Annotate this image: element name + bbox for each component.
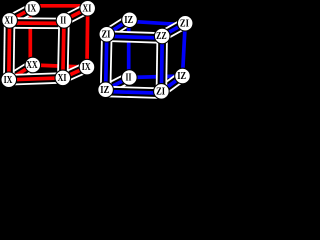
wire back-right XI-IX (red, no casing) [83,8,91,67]
node ZZ (blue front top-right) [154,28,170,44]
svg-text:IX: IX [82,61,91,73]
wire diagonal II-XI top-right (red) [64,8,88,20]
wire back-bottom XX-IX (red, no casing) [33,65,87,67]
node II (red front top-right) [56,13,72,29]
svg-text:ZZ: ZZ [156,30,167,42]
wire front-top ZI-ZZ (blue, white casing) [107,36,162,38]
wire front-top XI-II (red, white casing) [10,17,64,29]
svg-text:ZI: ZI [156,86,165,98]
node IZ (blue front bottom-left) [98,82,114,98]
node IZ (blue back bottom-right) [175,68,191,84]
node IX (red back top-left) [25,1,41,17]
svg-text:IZ: IZ [177,70,186,82]
svg-text:XX: XX [26,59,37,71]
wire diagonal IZ-II bottom-left (blue) [106,78,130,90]
svg-text:IZ: IZ [124,14,133,26]
wire diagonal ZI-IZ bottom-right (blue) [161,76,182,91]
wire front-right II-XI (red, white casing) [63,20,64,78]
svg-text:IZ: IZ [100,84,109,96]
wire back-left IZ-II (blue, no casing) [125,20,133,78]
node ZI (blue front top-left) [99,26,115,42]
svg-text:IX: IX [27,2,36,14]
wire front-right ZZ-ZI (blue, white casing) [156,36,168,91]
node ZI (blue back top-right) [177,15,193,31]
wire front-bottom IX-XI (red, white casing) [9,78,63,80]
node XI (red front bottom-right) [55,70,71,86]
svg-text:II: II [126,72,132,84]
wire front-bottom IZ-ZI (blue, white casing) [106,92,162,94]
node XI (red back top-right) [80,0,96,16]
svg-text:II: II [60,15,66,27]
node XX (red back bottom-left) [25,57,41,73]
node IX (red front bottom-left) [1,72,17,88]
svg-text:ZI: ZI [102,28,111,40]
wire back-left IX-XX (red, no casing) [26,8,34,65]
node XI (red front top-left) [2,13,18,29]
wire diagonal XI-IX bottom-right (red) [63,67,87,78]
svg-text:ZI: ZI [180,17,189,29]
wire diagonal XI-IX top-left (red) [10,8,33,20]
node IX (red back bottom-right) [79,59,95,75]
node II (blue back bottom-left) [122,70,138,86]
wire front-left XI-IX (red, white casing) [3,20,15,79]
svg-text:XI: XI [83,2,92,14]
wire front-left ZI-IZ (blue, white casing) [106,34,107,89]
wire diagonal IX-XX bottom-left (red) [9,65,33,80]
node IZ (blue back top-left) [122,12,138,28]
wire back-bottom II-IZ (blue, no casing) [129,76,182,78]
wire back-top IZ-ZI (blue, no casing) [130,21,186,25]
svg-text:XI: XI [4,15,13,27]
wire diagonal ZZ-ZI top-right (blue) [162,23,185,36]
svg-text:XI: XI [58,72,67,84]
wire back-top IX-XI (red, no casing) [33,2,88,10]
wire back-right ZI-IZ (blue, no casing) [183,23,186,76]
svg-text:IX: IX [4,74,13,86]
wire diagonal ZI-IZ top-left (blue) [107,20,130,35]
node ZI (blue front bottom-right) [154,84,170,100]
